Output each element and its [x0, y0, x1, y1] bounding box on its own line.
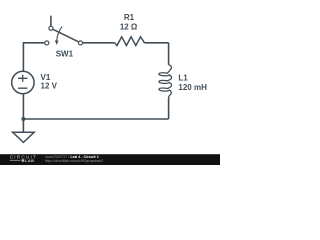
svg-text:120 mH: 120 mH	[178, 83, 207, 92]
svg-text:R1: R1	[124, 13, 135, 22]
svg-text:SW1: SW1	[56, 49, 74, 58]
svg-text:12 Ω: 12 Ω	[120, 23, 138, 32]
svg-text:✱LAB: ✱LAB	[21, 158, 34, 163]
svg-text:http://circuitlab.com/c9f2jsnq: http://circuitlab.com/c9f2jsnqsbab2	[45, 159, 103, 163]
svg-text:L1: L1	[178, 74, 188, 83]
svg-text:12 V: 12 V	[41, 82, 58, 91]
